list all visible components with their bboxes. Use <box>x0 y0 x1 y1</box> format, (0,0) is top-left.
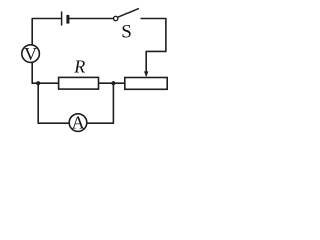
wire R right side to rheostat left terminal <box>99 82 125 84</box>
wire ammeter right along bottom and up to right node <box>87 83 114 123</box>
rheostat slider arrowhead <box>144 71 148 77</box>
svg-text:V: V <box>24 44 37 64</box>
switch S lever <box>118 8 139 17</box>
svg-text:A: A <box>72 113 85 133</box>
switch S pivot <box>114 16 118 20</box>
battery short thick plate (negative) <box>66 15 69 24</box>
battery long plate (positive) <box>61 11 63 25</box>
node junction right <box>111 81 115 85</box>
rheostat box <box>125 78 167 90</box>
wire switch to right corner, step down to slider <box>141 19 166 72</box>
svg-text:R: R <box>73 56 85 76</box>
wire battery to switch <box>69 18 113 20</box>
resistor R box <box>59 77 99 89</box>
node junction left <box>36 81 40 85</box>
wire top-left corner to battery <box>32 19 61 45</box>
voltmeter V <box>22 45 40 63</box>
svg-text:S: S <box>121 21 132 42</box>
ammeter A <box>69 114 87 132</box>
wire left node down and along bottom to ammeter <box>38 83 69 123</box>
wire voltmeter bottom to left node row <box>32 62 58 83</box>
